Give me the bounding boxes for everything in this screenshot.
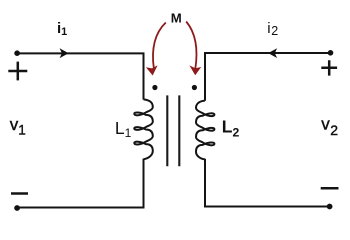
svg-text:L2: L2 (222, 117, 240, 140)
svg-text:L1: L1 (115, 118, 132, 140)
svg-text:i1: i1 (57, 20, 67, 38)
svg-text:M: M (171, 10, 182, 25)
svg-text:i2: i2 (267, 20, 278, 38)
svg-text:v2: v2 (321, 114, 338, 138)
svg-text:v1: v1 (10, 115, 26, 137)
